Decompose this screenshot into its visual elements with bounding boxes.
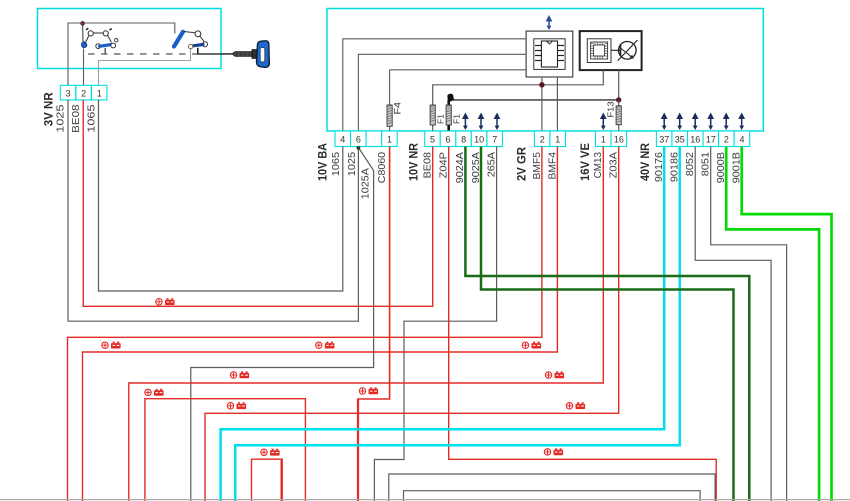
battery icon Z03A b — [566, 402, 585, 409]
svg-text:8052: 8052 — [685, 152, 696, 177]
chip in U2 — [587, 39, 611, 63]
svg-text:Z03A: Z03A — [609, 152, 620, 179]
wire 8051 — [711, 147, 787, 501]
svg-text:10V NR: 10V NR — [407, 143, 421, 181]
connector pins 40V NR — [656, 131, 672, 147]
svg-text:16: 16 — [614, 135, 624, 145]
wire 1065 (ign pin1 - box pin4) — [99, 100, 343, 291]
wire gray bridge outer — [389, 474, 715, 501]
battery icon Z04P — [544, 448, 563, 455]
svg-text:37: 37 — [659, 135, 669, 145]
wire 9025A (dark green) — [481, 147, 734, 501]
wire pin5 F1A to transistor — [433, 70, 604, 131]
junction dot U1/pin5 wire — [539, 82, 544, 87]
wire 9001B (green) — [742, 147, 832, 501]
svg-text:1: 1 — [601, 135, 606, 145]
svg-text:3V NR: 3V NR — [42, 92, 56, 126]
node ignition supply dot — [81, 21, 85, 25]
svg-text:F1: F1 — [437, 113, 446, 124]
svg-text:BE08: BE08 — [423, 152, 434, 179]
svg-text:1: 1 — [555, 135, 560, 145]
svg-text:17: 17 — [706, 135, 716, 145]
svg-text:3: 3 — [65, 89, 70, 99]
arrow above IC — [546, 15, 553, 30]
wire 1025 (ign pin3 - box pin6) — [68, 100, 358, 321]
svg-text:1025A: 1025A — [361, 168, 372, 200]
wire Z04P — [449, 147, 717, 501]
svg-text:1: 1 — [97, 89, 102, 99]
wire 1025A branch — [191, 148, 374, 501]
battery icon Z03A a — [227, 402, 246, 409]
fuse F4 — [387, 105, 392, 126]
wire ignition pin1 internal — [99, 49, 191, 86]
fuse F1B — [446, 105, 451, 125]
svg-text:8051: 8051 — [701, 152, 712, 177]
wire BE08 (ign pin2 - box pin5) — [83, 100, 433, 306]
svg-text:2V GR: 2V GR — [515, 147, 529, 181]
svg-text:4: 4 — [739, 135, 744, 145]
connector pins 3 2 1 (ignition) — [60, 85, 75, 100]
svg-text:Z04P: Z04P — [439, 152, 450, 179]
wire ignition pin2 internal — [83, 49, 85, 86]
IC stub to pin2 GR — [541, 77, 543, 131]
battery icon BMF4 c — [522, 342, 541, 349]
wire pin6 F1B to F13 junction (thick) — [447, 100, 450, 131]
svg-text:CM13: CM13 — [593, 152, 604, 179]
svg-text:1: 1 — [387, 135, 392, 145]
wire box pin6 to IC — [358, 54, 526, 131]
mechanical coupling dashed link — [88, 53, 197, 55]
battery icon CM13 a — [230, 371, 249, 378]
wire ignition pin3 internal — [68, 23, 175, 85]
battery icon BMF4 a — [102, 342, 121, 349]
battery icon C8060 — [359, 387, 378, 394]
ignition switch unit box — [38, 9, 222, 69]
wire 8052 — [695, 147, 771, 501]
svg-text:BMF5: BMF5 — [532, 152, 543, 180]
wire bridge red (left) — [145, 399, 306, 501]
ignition key — [221, 41, 269, 68]
svg-text:BMF4: BMF4 — [547, 152, 558, 180]
wire 265A — [374, 147, 496, 501]
transistor Q1 — [611, 40, 638, 61]
wire BMF4 — [83, 147, 558, 501]
IC U1 symbol — [534, 39, 565, 70]
connector pins 16V VE — [596, 131, 612, 147]
svg-text:F13: F13 — [606, 101, 616, 117]
key shaft link — [197, 53, 232, 55]
page bottom border — [0, 499, 850, 501]
svg-text:1025: 1025 — [56, 104, 67, 133]
transistor stub 2 — [618, 70, 620, 100]
svg-text:35: 35 — [675, 135, 685, 145]
wire CM13 — [129, 147, 604, 501]
battery icon BE08 — [156, 298, 175, 305]
svg-text:2: 2 — [724, 135, 729, 145]
svg-text:5: 5 — [430, 135, 435, 145]
wire gray bridge inner — [404, 491, 701, 501]
svg-text:BE08: BE08 — [71, 104, 82, 133]
svg-text:16: 16 — [690, 135, 700, 145]
wire 9024A (dark green) — [465, 147, 749, 501]
label decor blob — [447, 94, 454, 102]
wire C8060 — [358, 147, 390, 501]
svg-text:1025: 1025 — [347, 152, 358, 177]
wire 9000B (green) — [726, 147, 819, 501]
switch S2 (key contact set) — [174, 31, 208, 54]
battery icon small bridge — [261, 449, 280, 456]
svg-text:C8060: C8060 — [377, 152, 388, 184]
connector pins 4 6 _ 1 (10V BA) — [335, 131, 351, 147]
svg-text:4: 4 — [340, 135, 345, 145]
battery icon BMF4 b — [316, 342, 335, 349]
connector pins 10V NR — [425, 131, 441, 147]
svg-text:16V VE: 16V VE — [578, 143, 592, 181]
BSI main box — [327, 9, 763, 132]
transistor module U2 box — [580, 31, 642, 70]
svg-text:2: 2 — [81, 89, 86, 99]
wire 90186 (cyan) — [235, 147, 680, 501]
wire box pin1 via F4 to IC — [390, 70, 526, 131]
IC component U1 outer box — [526, 31, 573, 77]
wire 90176 (cyan) — [221, 147, 665, 501]
arrows at pins — [462, 113, 469, 131]
svg-text:1065: 1065 — [87, 104, 98, 133]
junction dot F13 — [616, 97, 621, 102]
svg-text:6: 6 — [446, 135, 451, 145]
svg-text:F4: F4 — [393, 102, 404, 115]
wire BMF5 — [68, 147, 542, 501]
IC stub to pin1 GR — [556, 77, 558, 131]
battery icon bridge left — [145, 389, 164, 396]
svg-text:7: 7 — [492, 135, 497, 145]
splice node 1025/1025A — [357, 146, 361, 150]
switch S1 (left contact set) — [81, 25, 118, 54]
fuse F1A — [430, 105, 435, 125]
wire box pin4 to IC — [343, 39, 526, 131]
svg-text:6: 6 — [356, 135, 361, 145]
svg-text:1065: 1065 — [331, 152, 342, 177]
svg-text:10V BA: 10V BA — [316, 143, 330, 181]
svg-text:F1: F1 — [453, 113, 462, 124]
wire Z03A — [205, 147, 619, 501]
wire bridge red (small) — [252, 459, 282, 501]
fuse F13 — [618, 100, 620, 131]
connector pins 2V GR — [534, 131, 550, 147]
svg-text:8: 8 — [461, 135, 466, 145]
svg-text:40V NR: 40V NR — [638, 143, 652, 181]
svg-text:2: 2 — [540, 135, 545, 145]
svg-text:265A: 265A — [487, 152, 498, 178]
battery icon CM13 b — [545, 371, 564, 378]
svg-text:10: 10 — [474, 135, 484, 145]
